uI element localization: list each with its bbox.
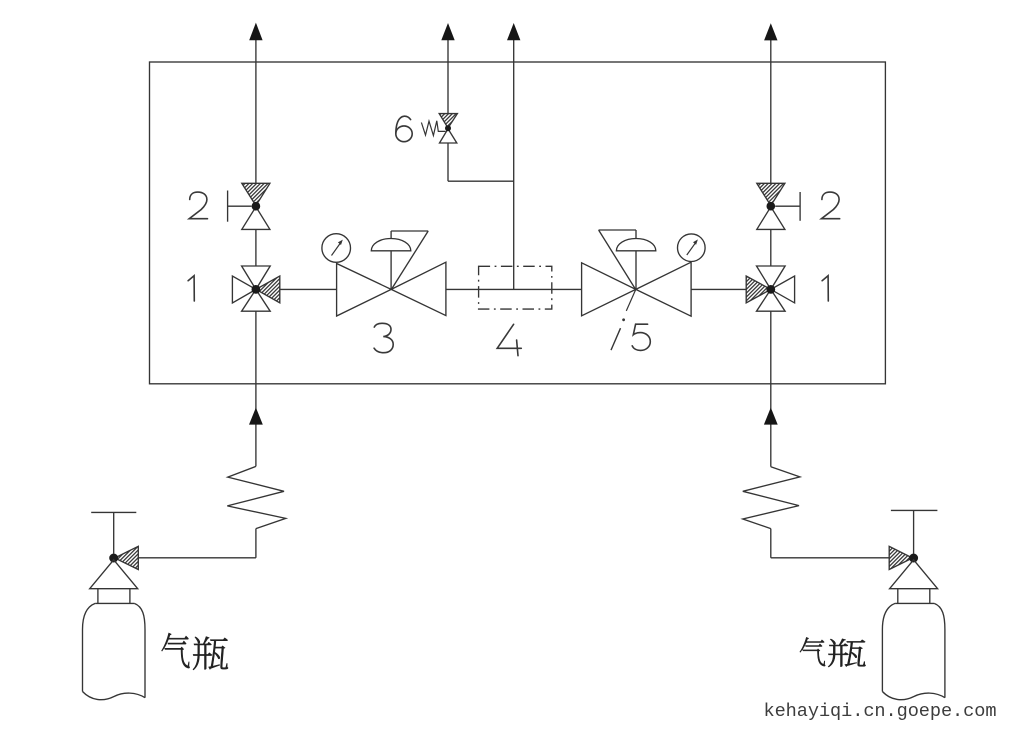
svg-text:kehayiqi.cn.goepe.com: kehayiqi.cn.goepe.com [764, 701, 997, 722]
